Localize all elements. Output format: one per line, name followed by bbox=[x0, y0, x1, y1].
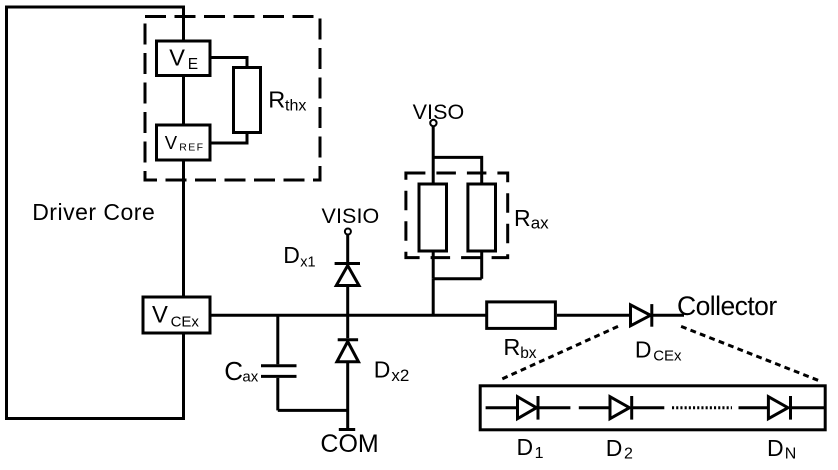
chain wire segment 3 bbox=[739, 406, 769, 409]
svg-text:C: C bbox=[224, 356, 243, 386]
thermal network dashed box bbox=[145, 17, 320, 181]
svg-text:Driver Core: Driver Core bbox=[32, 199, 155, 225]
wire VISIO to D_x1 bbox=[346, 235, 349, 263]
svg-text:R: R bbox=[268, 86, 285, 112]
svg-text:Collector: Collector bbox=[677, 291, 777, 321]
wire R_ax right bottom bbox=[480, 251, 483, 279]
svg-text:VISIO: VISIO bbox=[322, 204, 380, 228]
VISO terminal circle bbox=[430, 120, 436, 126]
VISIO terminal circle bbox=[345, 229, 351, 235]
diode D_x1 bbox=[335, 262, 360, 265]
svg-text:ax: ax bbox=[242, 368, 258, 385]
V_CEx box bbox=[143, 297, 210, 333]
svg-text:V: V bbox=[165, 132, 178, 153]
chain wire after D2 bbox=[632, 406, 665, 409]
chain wire after D1 bbox=[538, 406, 570, 409]
wire R_ax to main wire bbox=[432, 279, 435, 316]
R_ax dashed box bbox=[406, 173, 508, 258]
svg-text:bx: bx bbox=[520, 345, 537, 362]
svg-text:CEx: CEx bbox=[171, 314, 200, 331]
Driver Core box bbox=[7, 7, 184, 419]
voltage source V_REF bbox=[157, 125, 211, 160]
svg-text:E: E bbox=[188, 56, 198, 73]
svg-text:VISO: VISO bbox=[413, 100, 465, 124]
wire VISO branch to R_ax right bbox=[433, 157, 482, 184]
resistor R_ax left bbox=[419, 184, 447, 251]
svg-text:D: D bbox=[517, 434, 534, 460]
svg-text:REF: REF bbox=[179, 142, 204, 154]
wire R_ax bottom connector bbox=[433, 277, 482, 280]
svg-text:2: 2 bbox=[624, 446, 633, 463]
wire D_x1 to main wire bbox=[346, 286, 349, 316]
svg-text:D: D bbox=[635, 336, 652, 362]
chain dotted continuation bbox=[672, 406, 732, 409]
svg-text:V: V bbox=[169, 45, 185, 71]
wire V_E to R_thx bbox=[210, 58, 247, 68]
resistor R_thx bbox=[234, 68, 261, 133]
diode D_CEx bbox=[631, 305, 651, 326]
svg-text:R: R bbox=[514, 205, 531, 231]
main wire V_CEx to R_bx bbox=[210, 314, 486, 317]
chain wire segment 1 bbox=[486, 406, 518, 409]
svg-text:R: R bbox=[503, 334, 520, 360]
dotted fan-out right bbox=[681, 326, 819, 380]
dotted fan-out left bbox=[498, 326, 618, 380]
wire C_ax to COM node bbox=[278, 409, 348, 412]
series diode chain box bbox=[480, 386, 825, 430]
chain wire segment 2 bbox=[579, 406, 610, 409]
svg-text:D: D bbox=[283, 242, 300, 268]
wire main wire to D_x2 bbox=[346, 315, 349, 338]
diode D1 bbox=[518, 397, 537, 419]
wire VISO down to R_ax left bbox=[432, 127, 435, 185]
svg-text:D: D bbox=[374, 357, 391, 383]
svg-text:CEx: CEx bbox=[653, 348, 682, 365]
COM terminal bar bbox=[339, 428, 355, 431]
wire D_x2 to COM bbox=[346, 362, 349, 429]
wire R_bx to D_CEx bbox=[557, 314, 630, 317]
svg-text:x1: x1 bbox=[300, 254, 315, 270]
diode D2 bbox=[610, 397, 630, 419]
svg-text:N: N bbox=[785, 446, 797, 463]
svg-text:ax: ax bbox=[531, 214, 549, 233]
voltage source V_E bbox=[157, 41, 211, 76]
svg-text:thx: thx bbox=[285, 98, 306, 115]
capacitor C_ax bbox=[276, 315, 279, 364]
svg-text:V: V bbox=[152, 302, 168, 329]
chain wire after DN bbox=[791, 406, 825, 409]
diode D_x2 bbox=[338, 338, 358, 341]
wire R_ax left bottom bbox=[432, 251, 435, 279]
resistor R_bx bbox=[487, 302, 556, 329]
diode DN bbox=[768, 397, 788, 419]
svg-text:COM: COM bbox=[320, 430, 378, 458]
svg-text:D: D bbox=[767, 435, 784, 461]
wire V_REF to R_thx bbox=[210, 133, 247, 144]
svg-text:1: 1 bbox=[535, 445, 544, 462]
wire D_CEx to Collector bbox=[652, 314, 684, 317]
svg-text:x2: x2 bbox=[391, 366, 409, 385]
svg-text:D: D bbox=[606, 435, 623, 461]
resistor R_ax right bbox=[468, 184, 496, 251]
